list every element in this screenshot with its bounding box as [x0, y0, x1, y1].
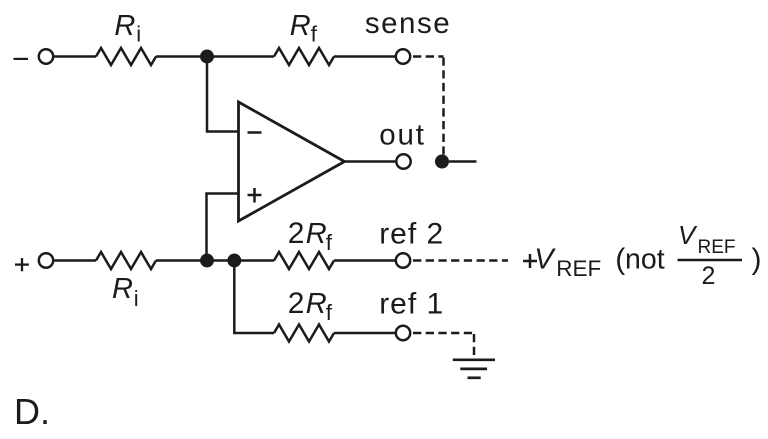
svg-text:R: R: [306, 288, 327, 320]
svg-text:ref 2: ref 2: [379, 218, 444, 251]
svg-text:2: 2: [702, 262, 716, 290]
svg-text:sense: sense: [365, 7, 451, 40]
svg-text:): ): [752, 243, 762, 276]
svg-text:V: V: [678, 220, 698, 250]
svg-text:out: out: [379, 119, 425, 152]
svg-text:f: f: [311, 22, 318, 47]
svg-text:D.: D.: [14, 391, 50, 432]
svg-text:f: f: [326, 230, 333, 255]
svg-text:f: f: [326, 300, 333, 325]
svg-text:REF: REF: [556, 256, 601, 281]
svg-text:R: R: [290, 10, 311, 42]
svg-text:R: R: [112, 273, 133, 305]
svg-text:R: R: [114, 10, 135, 42]
svg-text:2: 2: [288, 287, 305, 320]
svg-text:not: not: [625, 243, 665, 275]
svg-text:V: V: [534, 244, 556, 276]
svg-text:REF: REF: [698, 237, 736, 258]
svg-text:R: R: [306, 218, 327, 250]
svg-text:i: i: [134, 286, 139, 311]
svg-text:(: (: [615, 243, 625, 276]
svg-text:2: 2: [288, 217, 305, 250]
svg-text:ref 1: ref 1: [379, 288, 444, 321]
svg-text:i: i: [136, 22, 141, 47]
